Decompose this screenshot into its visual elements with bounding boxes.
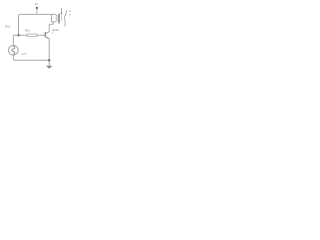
switch blade [64, 10, 67, 26]
wire base feed left [13, 34, 18, 36]
switch pole wire lower [61, 13, 63, 21]
source V1 sine [12, 46, 15, 54]
switch label dash 2 [69, 14, 70, 15]
ground [46, 66, 53, 69]
switch pole wire [61, 8, 63, 13]
wire resistor to base [37, 34, 45, 36]
switch contact dot [61, 12, 63, 14]
transistor Q1 emitter arrow [46, 37, 49, 39]
svg-text:s9: s9 [51, 33, 54, 35]
coil L1 humps [55, 15, 57, 22]
transistor Q1 base bar [44, 32, 46, 37]
wire coil drop [52, 22, 54, 24]
transistor Q1 emitter diagonal [45, 36, 49, 38]
svg-text:R61: R61 [25, 28, 30, 32]
wire coil bottom [51, 21, 55, 23]
wire collector vertical [48, 24, 50, 31]
wire source top lead [12, 35, 14, 45]
source V1 circle [8, 45, 18, 55]
wire bottom horizontal [13, 58, 49, 60]
wire junction to resistor [19, 34, 28, 36]
wire collector horizontal [49, 23, 53, 25]
switch lower tick [64, 25, 66, 27]
wire coil left vertical [50, 14, 52, 22]
wire ground stem [48, 60, 50, 66]
node junction dot A [17, 34, 20, 37]
switch label dash 1 [69, 11, 71, 12]
power terminal ball [36, 7, 38, 9]
svg-text:Q613: Q613 [52, 28, 59, 32]
svg-text:9V: 9V [35, 3, 38, 6]
wire left vertical [19, 14, 21, 35]
svg-text:RV1: RV1 [5, 25, 11, 29]
wire source bottom lead [12, 55, 14, 58]
wire emitter vertical [48, 39, 50, 61]
wire top horizontal [20, 13, 55, 15]
svg-text:1kHz: 1kHz [21, 53, 27, 56]
coil core bar [58, 14, 60, 24]
transistor Q1 collector diagonal [45, 32, 49, 34]
power terminal stem [36, 9, 38, 15]
resistor R1 box [27, 34, 37, 36]
node junction dot B [48, 59, 51, 62]
